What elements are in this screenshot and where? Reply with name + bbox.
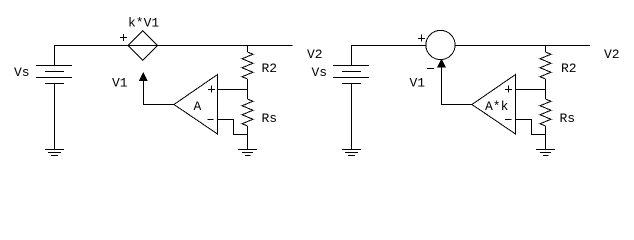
svg-text:Rs: Rs — [560, 111, 576, 126]
svg-text:R2: R2 — [262, 61, 278, 76]
plus sign of dependent source G1 — [418, 35, 425, 42]
wire: main top wire right circuit, battery to circle — [351, 45, 426, 47]
svg-text:Vs: Vs — [14, 65, 30, 80]
wire: right battery bottom lead — [351, 84, 353, 150]
plus sign inside op-amp U2 — [505, 86, 512, 93]
svg-text:A*k: A*k — [485, 99, 509, 114]
wire: left battery bottom lead — [54, 84, 56, 150]
wire: right battery top lead — [351, 46, 353, 66]
battery Vs (right) — [333, 66, 369, 84]
wire: op-amp + input to R2/Rs junction — [218, 89, 248, 91]
svg-text:k*V1: k*V1 — [128, 16, 159, 31]
svg-text:Vs: Vs — [312, 65, 328, 80]
ground (right Rs) — [536, 150, 555, 156]
wire: right op-amp - input down to Rs ground node — [516, 120, 546, 135]
resistor Rs (right) — [540, 90, 551, 150]
wire: op-amp - input down to Rs ground node — [218, 120, 248, 135]
battery Vs (left) — [36, 66, 72, 84]
ground (left battery) — [45, 150, 64, 156]
minus sign of dependent source G1 — [427, 68, 434, 70]
wire: V1 arrow stem and output wire to right op-amp apex — [442, 67, 473, 105]
resistor R2 (left) — [242, 46, 253, 90]
wire: V1 arrow stem and output wire to op-amp apex — [144, 80, 175, 105]
resistor R2 (right) — [540, 46, 551, 90]
V1 arrow (right): head — [438, 60, 446, 67]
svg-text:R2: R2 — [561, 61, 577, 76]
resistor Rs (left) — [242, 90, 253, 150]
svg-text:V1: V1 — [112, 76, 128, 91]
minus sign inside op-amp U1 — [208, 119, 214, 121]
V1 arrow (left): head — [139, 73, 147, 81]
plus sign inside op-amp U1 — [208, 86, 215, 93]
svg-text:V2: V2 — [307, 47, 323, 62]
svg-text:Rs: Rs — [262, 111, 278, 126]
ground (right battery) — [342, 150, 361, 156]
wire: left battery top lead — [54, 46, 56, 66]
op-amp U2 (triangle) — [472, 75, 516, 135]
minus sign inside op-amp U2 — [505, 119, 512, 121]
dependent source E1 (diamond) — [128, 31, 157, 61]
wire: right op-amp + input to R2/Rs junction — [516, 89, 546, 91]
wire: main top wire right circuit, circle to V2 — [455, 45, 590, 47]
plus sign of dependent source E1 — [120, 34, 127, 41]
op-amp U1 (triangle) — [174, 75, 218, 135]
svg-text:A: A — [194, 99, 202, 114]
svg-text:V2: V2 — [604, 47, 620, 62]
wire: main top wire left circuit — [54, 45, 293, 47]
ground (left Rs) — [238, 150, 257, 156]
dependent source G1 (circle) — [426, 30, 455, 59]
svg-text:V1: V1 — [410, 76, 426, 91]
